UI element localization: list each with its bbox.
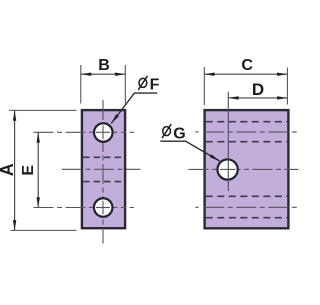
svg-text:D: D: [252, 80, 264, 99]
svg-text:C: C: [241, 57, 253, 74]
svg-text:E: E: [20, 165, 37, 176]
svg-text:F: F: [150, 76, 160, 93]
svg-text:A: A: [0, 163, 17, 176]
svg-text:B: B: [98, 57, 110, 74]
svg-text:G: G: [173, 125, 185, 142]
